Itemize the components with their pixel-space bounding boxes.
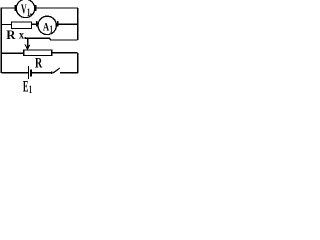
wire ammeter to right vertical xyxy=(58,23,77,25)
switch blade xyxy=(53,68,60,73)
svg-text:1: 1 xyxy=(50,25,53,36)
rheostat slider arrow shaft xyxy=(27,38,29,49)
wire top-left horizontal xyxy=(1,7,15,9)
wire right vertical lower xyxy=(77,53,79,73)
svg-text:E: E xyxy=(23,79,29,95)
svg-text:A: A xyxy=(43,22,49,34)
wire Rx right lead xyxy=(32,23,37,25)
node tick left of ammeter xyxy=(36,21,38,27)
node tick right of ammeter xyxy=(57,21,59,27)
label E1 xyxy=(23,79,32,96)
battery E1 long plate xyxy=(27,66,29,79)
svg-text:x: x xyxy=(19,30,24,42)
wire right vertical upper xyxy=(77,8,79,40)
rheostat slider arrowhead xyxy=(25,44,30,49)
wire Rx left lead xyxy=(1,23,11,25)
wire rheostat left lead xyxy=(1,52,24,54)
label R_x xyxy=(6,27,26,42)
battery E1 short thick plate xyxy=(30,69,32,76)
label A1 xyxy=(43,22,53,36)
wire left vertical xyxy=(0,8,2,73)
svg-text:R: R xyxy=(35,56,43,72)
rheostat R box xyxy=(24,50,52,56)
wire rheostat right lead xyxy=(52,52,78,54)
svg-text:R: R xyxy=(6,27,16,42)
label V1 xyxy=(21,2,31,19)
svg-text:1: 1 xyxy=(27,5,30,19)
voltmeter V1 circle xyxy=(16,0,34,18)
ammeter A1 circle xyxy=(38,16,56,34)
node tick left of voltmeter xyxy=(14,5,16,11)
wire top-right horizontal xyxy=(36,7,78,9)
node tick right of voltmeter xyxy=(35,5,37,11)
wire rheostat slider tap to right vertical xyxy=(25,38,78,40)
svg-text:V: V xyxy=(21,2,27,17)
wire bottom left xyxy=(1,72,28,74)
resistor R_x box xyxy=(12,22,32,29)
wire switch to bottom-right corner xyxy=(60,72,78,74)
svg-text:1: 1 xyxy=(29,84,32,94)
wire battery to switch xyxy=(32,72,51,74)
switch contact nub xyxy=(51,72,53,74)
